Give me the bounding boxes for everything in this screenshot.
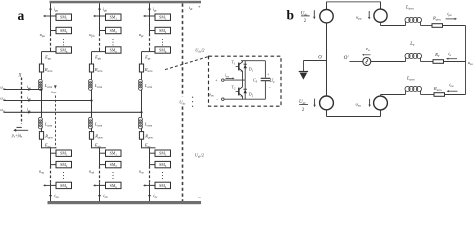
svg-text:unc: unc	[139, 168, 145, 174]
svg-text:Rarm: Rarm	[44, 134, 53, 140]
DC bus negative (bottom, thick gray)	[48, 201, 202, 204]
svg-text:+: +	[267, 72, 269, 76]
submodule SM2 lower b	[106, 161, 122, 167]
resistor R_T middle branch	[433, 60, 444, 64]
svg-text:usm: usm	[209, 92, 214, 97]
dashed leader line to SM detail	[165, 57, 208, 70]
svg-text:Larm: Larm	[44, 122, 53, 128]
svg-text:Larm: Larm	[44, 83, 53, 89]
svg-text:Rarm: Rarm	[432, 15, 442, 21]
inductor L_T middle branch	[405, 57, 407, 61]
submodule SMn upper a	[56, 47, 72, 53]
resistor R_arm lower branch	[434, 93, 445, 97]
arm voltage u_pa arrow	[45, 15, 50, 17]
resistor R_arm upper b	[89, 64, 93, 72]
svg-text:b: b	[287, 8, 295, 23]
svg-text:upa: upa	[40, 32, 46, 38]
current i_nb arrow	[99, 191, 101, 196]
svg-text:Larm: Larm	[94, 83, 103, 89]
submodule SM1 lower b	[106, 150, 122, 156]
AC node junction dot a	[40, 88, 42, 90]
svg-text:ipb: ipb	[103, 6, 108, 12]
svg-text:Rarm: Rarm	[144, 67, 153, 73]
svg-text:una: una	[39, 168, 45, 174]
resistor R_arm upper a	[39, 64, 43, 72]
AC node junction dot c	[140, 111, 142, 113]
submodule SMn lower c	[155, 182, 171, 188]
resistor R_arm lower a	[39, 132, 43, 140]
svg-text:ipa: ipa	[447, 11, 452, 17]
wire resistor to inductor b	[91, 72, 93, 80]
submodule SM2 lower c	[155, 161, 171, 167]
svg-text:usc: usc	[0, 107, 5, 113]
IGBT T1	[238, 63, 240, 71]
svg-text:Larm: Larm	[405, 6, 414, 11]
svg-text:upa: upa	[356, 14, 362, 20]
resistor R_arm upper branch	[432, 24, 443, 28]
upper branch wire	[380, 22, 382, 25]
source U_dc/2 upper	[320, 10, 333, 23]
node voltage u_spa dashed arrow	[54, 85, 57, 88]
dc midpoint ellipsis dots	[192, 97, 193, 98]
submodule SM2 upper b	[106, 27, 122, 33]
lower branch wire	[380, 95, 382, 97]
submodule SM1 upper a	[56, 14, 72, 20]
svg-text:Rarm: Rarm	[94, 67, 103, 73]
inductor L_arm lower branch	[405, 90, 407, 94]
svg-text:usa: usa	[0, 84, 5, 90]
AC node junction dot b	[90, 99, 92, 101]
svg-text:ipa: ipa	[54, 6, 59, 12]
svg-text:+: +	[198, 4, 201, 10]
svg-text:Udc: Udc	[179, 99, 186, 105]
svg-text:Epa: Epa	[44, 54, 51, 60]
resistor R_arm lower b	[89, 132, 93, 140]
leg b: upper arm chain wire	[99, 3, 101, 33]
submodule SMn lower b	[106, 182, 122, 188]
leg a: lower arm chain wire	[50, 148, 52, 166]
submodule SM2 upper c	[155, 27, 171, 33]
wire to lower chain c	[141, 139, 143, 148]
svg-text:O: O	[318, 55, 322, 60]
ellipsis dots upper b	[112, 39, 113, 40]
ground	[304, 60, 327, 62]
leg c: upper arm chain wire	[149, 3, 151, 33]
inductor L_arm lower a	[38, 117, 42, 121]
SM detail dashed box	[209, 56, 282, 106]
svg-text:ipc: ipc	[153, 6, 158, 12]
middle branch wire	[350, 61, 364, 63]
svg-text:a: a	[18, 8, 25, 23]
controlled source u_pa upper arm	[374, 9, 387, 22]
wire inductor to resistor lower b	[91, 128, 93, 132]
leg vertical through AC node b	[91, 89, 93, 117]
svg-text:ina: ina	[449, 82, 454, 88]
SM top rail	[241, 60, 265, 62]
submodule SM1 lower c	[155, 150, 171, 156]
inductor L_arm upper a	[39, 79, 43, 83]
svg-text:ina: ina	[54, 193, 59, 199]
leg vertical through AC node c	[141, 89, 143, 117]
wire inductor to resistor lower c	[141, 128, 143, 132]
wire SMn to resistor b	[91, 52, 93, 64]
DC bus positive (top, thick gray)	[50, 1, 202, 4]
current i_pc arrow	[149, 4, 151, 9]
grid current i_sa arrow	[28, 88, 32, 91]
current i_pb arrow	[99, 4, 101, 9]
svg-text:O′: O′	[344, 55, 350, 61]
svg-text:ea: ea	[366, 46, 370, 52]
submodule SM1 upper c	[155, 14, 171, 20]
submodule SM2 lower a	[56, 161, 72, 167]
svg-text:isa: isa	[27, 84, 31, 90]
svg-text:Udc/2: Udc/2	[195, 48, 205, 54]
svg-text:upb: upb	[89, 32, 95, 38]
svg-text:Larm: Larm	[144, 122, 153, 128]
svg-text:ps+jqs: ps+jqs	[11, 133, 22, 139]
SM terminal lower	[222, 98, 225, 101]
current i_na arrow	[50, 191, 52, 196]
svg-text:Epc: Epc	[144, 54, 151, 60]
submodule SM1 upper b	[106, 14, 122, 20]
svg-text:LT: LT	[409, 42, 415, 47]
AC grid line u_sb	[4, 100, 92, 102]
SM midpoint wire	[224, 79, 245, 81]
grid current i_sc arrow	[28, 111, 32, 114]
svg-text:inb: inb	[103, 193, 108, 199]
submodule SMn upper b	[106, 47, 122, 53]
arm voltage u_pc arrow	[145, 15, 149, 17]
AC source e_a	[363, 58, 371, 66]
wire to lower chain a	[41, 139, 43, 148]
equivalent top rail	[327, 1, 381, 3]
svg-text:upc: upc	[139, 32, 145, 38]
svg-text:Larm: Larm	[144, 83, 153, 89]
current i_nc arrow	[149, 191, 151, 196]
inductor L_arm upper branch	[405, 21, 407, 25]
svg-text:Udc/2: Udc/2	[195, 152, 205, 158]
submodule SM2 upper a	[56, 27, 72, 33]
current i_pa arrow	[50, 4, 52, 9]
submodule SMn upper c	[155, 47, 171, 53]
svg-text:Uc: Uc	[269, 78, 275, 84]
svg-text:isb: isb	[27, 95, 31, 101]
submodule SM1 lower a	[56, 150, 72, 156]
inductor L_arm upper c	[139, 79, 143, 83]
ellipsis dots lower a	[63, 172, 64, 173]
wire resistor to inductor a	[41, 72, 43, 80]
controlled source u_na lower arm	[374, 96, 388, 110]
SM bottom rail	[224, 98, 265, 100]
submodule SMn lower a	[56, 182, 72, 188]
equivalent bottom rail	[326, 110, 328, 117]
inductor L_arm upper b	[89, 79, 93, 83]
IGBT T2	[238, 88, 240, 96]
arm voltage u_pb arrow	[95, 15, 99, 17]
svg-text:inc: inc	[153, 193, 158, 199]
capacitor C0	[264, 61, 266, 78]
inductor L_arm lower c	[138, 117, 142, 121]
ellipsis dots upper c	[162, 39, 163, 40]
ellipsis dots lower c	[162, 172, 163, 173]
svg-text:Rarm: Rarm	[44, 67, 53, 73]
svg-text:unb: unb	[89, 168, 95, 174]
diode D2	[244, 80, 246, 99]
svg-text:RT: RT	[434, 52, 440, 58]
ellipsis dots upper a	[63, 39, 64, 40]
leg b: lower arm chain wire	[99, 148, 101, 166]
svg-text:Rarm: Rarm	[433, 86, 443, 92]
svg-text:Larm: Larm	[406, 77, 415, 82]
right rail	[465, 26, 467, 95]
wire to R_arm	[421, 25, 432, 27]
resistor R_arm upper c	[139, 64, 143, 72]
resistor R_arm lower c	[139, 132, 143, 140]
power flow arrow p_s+jq_s	[16, 129, 29, 131]
leg a: upper arm chain wire	[50, 3, 52, 33]
ellipsis dots lower b	[112, 172, 113, 173]
svg-text:Epb: Epb	[94, 54, 101, 60]
source U_dc/2 lower	[320, 96, 334, 110]
wire to lower chain b	[91, 139, 93, 148]
svg-text:usb: usb	[0, 95, 5, 101]
inductor L_arm lower b	[88, 117, 92, 121]
AC grid line u_sc	[4, 111, 142, 113]
AC grid line u_sa	[4, 89, 42, 91]
svg-text:−: −	[198, 195, 201, 201]
svg-text:ism: ism	[225, 74, 229, 79]
svg-text:Rarm: Rarm	[144, 134, 153, 140]
svg-text:una: una	[356, 102, 362, 108]
wire SMn to resistor a	[41, 52, 43, 64]
leg vertical through AC node a	[41, 89, 43, 117]
svg-text:Rarm: Rarm	[94, 134, 103, 140]
SM terminal upper	[222, 79, 225, 82]
left rail	[326, 23, 328, 96]
grid current i_sb arrow	[28, 99, 32, 102]
DC measurement plane dashed line	[182, 4, 184, 97]
svg-text:usa: usa	[468, 60, 473, 66]
measurement plane X dashed line	[21, 78, 23, 125]
svg-text:Larm: Larm	[94, 122, 103, 128]
wire SMn to resistor c	[141, 52, 143, 64]
wire resistor to inductor c	[141, 72, 143, 80]
diode D1	[244, 61, 246, 80]
leg c: lower arm chain wire	[149, 148, 151, 166]
wire inductor to resistor lower a	[41, 128, 43, 132]
